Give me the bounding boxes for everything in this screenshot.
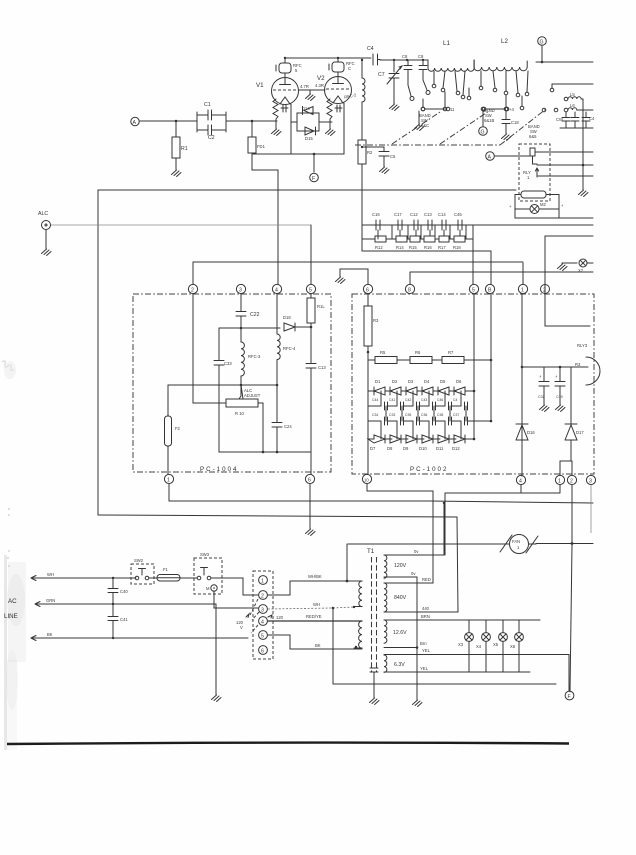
svg-text:C43: C43 bbox=[421, 398, 427, 402]
wire ALC to pin5 bbox=[51, 224, 311, 226]
svg-text:+: + bbox=[539, 374, 542, 379]
fan feed line bbox=[348, 543, 593, 546]
cap row 2 bbox=[368, 413, 491, 425]
svg-text:D1: D1 bbox=[375, 379, 381, 384]
svg-text:11: 11 bbox=[450, 107, 455, 112]
svg-text:1: 1 bbox=[527, 175, 530, 180]
svg-text:R1: R1 bbox=[181, 146, 188, 152]
svg-text:WH/BK: WH/BK bbox=[308, 574, 322, 579]
svg-text:6&1B: 6&1B bbox=[484, 118, 494, 123]
capacitor C16 bbox=[372, 212, 380, 230]
pin B bbox=[485, 284, 494, 293]
pin 4 bbox=[272, 284, 281, 293]
wire C1 to V1 grid bbox=[226, 120, 277, 122]
svg-text:3: 3 bbox=[239, 288, 242, 294]
capacitor C17 bbox=[394, 212, 402, 230]
svg-text:BRN: BRN bbox=[421, 614, 430, 619]
svg-text:R2: R2 bbox=[367, 150, 373, 155]
scan left margin band bbox=[4, 555, 7, 750]
svg-text:L5: L5 bbox=[570, 92, 575, 97]
core ground bbox=[370, 672, 380, 705]
capacitor CX bbox=[582, 112, 595, 128]
pin6 ground bbox=[306, 484, 316, 536]
cap row 1 bbox=[368, 398, 468, 410]
capacitor C8 bbox=[402, 54, 414, 101]
svg-text:1: 1 bbox=[521, 288, 524, 294]
cap feed wire bbox=[522, 366, 560, 368]
capacitor C19 bbox=[555, 367, 565, 412]
wafer jumper pair left bbox=[421, 107, 455, 112]
node ALC bbox=[38, 211, 51, 256]
PC-1004 board box bbox=[133, 294, 331, 472]
svg-text:1: 1 bbox=[167, 478, 170, 484]
cathode bypass marks V1 bbox=[281, 105, 288, 112]
multiplier right rail bbox=[473, 294, 475, 439]
svg-text:FD1: FD1 bbox=[257, 144, 266, 149]
pin 2 bbox=[188, 284, 197, 293]
diode D9 bbox=[403, 435, 424, 451]
svg-text:2: 2 bbox=[570, 479, 573, 485]
relay RLY3 coil arc bbox=[560, 343, 600, 385]
svg-text:6&C: 6&C bbox=[421, 123, 429, 128]
resistor R16 bbox=[424, 236, 435, 250]
feedback box left line bbox=[97, 190, 99, 515]
svg-text:M2: M2 bbox=[540, 202, 546, 207]
switch SW3 bbox=[180, 552, 222, 594]
junction bbox=[240, 327, 243, 330]
svg-text:D6: D6 bbox=[456, 379, 462, 384]
resistor R14 bbox=[396, 236, 407, 250]
B+ plate line bbox=[285, 57, 371, 59]
anode cap V2 bbox=[329, 58, 355, 72]
svg-text:D8: D8 bbox=[387, 446, 393, 451]
wire FD1 to PC-1004 pin 4 bbox=[252, 170, 278, 284]
svg-text:F: F bbox=[312, 176, 315, 182]
svg-text:R3: R3 bbox=[373, 318, 379, 323]
scan smudge artifacts bbox=[2, 361, 25, 710]
capacitor C12 bbox=[410, 212, 418, 230]
junction bbox=[175, 120, 178, 123]
T1 core bbox=[372, 557, 377, 672]
svg-text:8: 8 bbox=[408, 288, 411, 294]
diode D2 bbox=[390, 379, 408, 395]
diode D6 bbox=[454, 379, 474, 395]
ground L5 rail bbox=[579, 189, 589, 197]
svg-text:4.7R: 4.7R bbox=[300, 84, 309, 89]
svg-text:2: 2 bbox=[191, 288, 194, 294]
svg-text:PC-1002: PC-1002 bbox=[410, 466, 448, 473]
svg-text:BK: BK bbox=[315, 643, 321, 648]
diode D1 bbox=[368, 379, 392, 395]
svg-text:X5: X5 bbox=[493, 642, 499, 647]
diode D16 zener bbox=[516, 424, 535, 476]
wire terminal3 WH dotted bbox=[268, 602, 333, 609]
feedback box top line bbox=[98, 189, 516, 191]
T1 secondary HV bbox=[384, 577, 458, 612]
pin 2c bbox=[567, 475, 576, 484]
svg-text:+4: +4 bbox=[509, 107, 514, 112]
terminal 1 bbox=[259, 576, 268, 585]
pin6 drop bbox=[310, 452, 312, 474]
svg-text:C2: C2 bbox=[208, 135, 215, 141]
grid resistor zigzag V1 bbox=[273, 99, 278, 122]
svg-text:X6: X6 bbox=[510, 644, 516, 649]
pin 10 bbox=[362, 474, 371, 483]
svg-text:D7: D7 bbox=[370, 446, 376, 451]
bias line to pin2 bbox=[193, 262, 523, 284]
node F bottom bbox=[565, 691, 574, 700]
capacitor C13a bbox=[424, 212, 432, 230]
RLY1 contact outputs bbox=[537, 152, 593, 176]
svg-text:V: V bbox=[240, 625, 243, 630]
inductor RFC-4 bbox=[277, 294, 296, 385]
ALC adjust pot R10 bbox=[226, 385, 261, 416]
cathode bottom wire bbox=[252, 153, 344, 155]
svg-text:RLY3: RLY3 bbox=[577, 343, 588, 348]
capacitor C22 bbox=[236, 294, 260, 328]
svg-text:D5: D5 bbox=[440, 379, 446, 384]
svg-text:4: 4 bbox=[261, 620, 264, 626]
ladder bottom rail segments bbox=[386, 238, 473, 240]
wire input A to C1 bbox=[140, 120, 197, 122]
svg-text:2: 2 bbox=[261, 594, 264, 600]
wire C4 to coils bbox=[380, 59, 428, 61]
terminal 5 bbox=[259, 631, 268, 640]
svg-text:C13: C13 bbox=[424, 212, 432, 217]
diode D11 bbox=[436, 435, 456, 451]
snubber ladder rails bbox=[362, 225, 375, 239]
svg-text:C33: C33 bbox=[389, 413, 395, 417]
junction bbox=[367, 351, 370, 354]
terminal 2 bbox=[259, 591, 268, 600]
svg-text:5: 5 bbox=[261, 634, 264, 640]
svg-text:C42: C42 bbox=[405, 398, 411, 402]
svg-text:RFC-3: RFC-3 bbox=[248, 354, 261, 359]
svg-text:4: 4 bbox=[275, 288, 278, 294]
inductor L1 bbox=[428, 40, 474, 71]
HV output line bbox=[521, 294, 523, 476]
lamp X5 bbox=[493, 620, 507, 672]
svg-text:ALC: ALC bbox=[38, 211, 48, 217]
svg-text:R1L: R1L bbox=[317, 304, 325, 309]
svg-text:1: 1 bbox=[558, 479, 561, 485]
svg-text:D12: D12 bbox=[452, 446, 460, 451]
terminal 4 bbox=[259, 617, 268, 626]
svg-text:A: A bbox=[133, 120, 137, 126]
inductor RFC-2 bbox=[344, 60, 365, 140]
120 jumper label bbox=[268, 615, 284, 620]
diode D17 zener bbox=[565, 367, 584, 461]
svg-text:C5: C5 bbox=[390, 154, 396, 159]
lamp X4 bbox=[476, 620, 490, 672]
svg-text:R15: R15 bbox=[409, 245, 417, 250]
svg-text:840V: 840V bbox=[394, 595, 407, 601]
svg-text:PC-1004: PC-1004 bbox=[200, 466, 238, 473]
diode D10 bbox=[419, 435, 440, 451]
inductor RFC-3 bbox=[241, 328, 261, 385]
svg-text:C4: C4 bbox=[453, 398, 457, 402]
voltage select dashed links bbox=[250, 599, 259, 633]
svg-text:R12: R12 bbox=[375, 245, 383, 250]
svg-text:D9: D9 bbox=[403, 446, 409, 451]
tube V1 bbox=[256, 73, 325, 105]
node circle on right vertical bbox=[541, 285, 550, 294]
capacitor C9 bbox=[418, 54, 430, 95]
pin 3c bbox=[586, 475, 595, 484]
primary top feed bbox=[346, 544, 348, 581]
fan FAN1 bbox=[500, 535, 538, 554]
svg-text:2: 2 bbox=[543, 288, 546, 294]
feedback box bottom line bbox=[98, 515, 457, 517]
svg-text:C24: C24 bbox=[284, 424, 292, 429]
svg-text:WH: WH bbox=[47, 572, 54, 577]
T1 secondary 12.6V bbox=[384, 614, 540, 649]
svg-text:D15: D15 bbox=[305, 136, 313, 141]
terminal strip box bbox=[253, 571, 273, 659]
fuse F2 bbox=[165, 385, 181, 474]
L1 tap contacts bbox=[432, 84, 436, 88]
fuse F1 bbox=[149, 567, 180, 581]
resistor R17 bbox=[438, 236, 449, 250]
pin2 wire to pot bbox=[193, 294, 226, 403]
pin3c stub bbox=[590, 485, 592, 533]
svg-text:5: 5 bbox=[309, 288, 312, 294]
resistor R1L bbox=[307, 294, 325, 363]
svg-text:C17: C17 bbox=[394, 212, 402, 217]
svg-text:M: M bbox=[206, 586, 210, 591]
svg-text:1: 1 bbox=[517, 545, 520, 550]
wire terminal4 RED/YE bbox=[268, 614, 362, 621]
resistor R1 bbox=[172, 121, 188, 169]
resistor R12 bbox=[375, 236, 386, 250]
B+ wire to right edge bbox=[536, 61, 593, 63]
svg-text:120V: 120V bbox=[394, 563, 407, 569]
svg-text:RED/YE: RED/YE bbox=[306, 614, 322, 619]
svg-text:LINE: LINE bbox=[4, 613, 18, 620]
pin 8 bbox=[405, 284, 414, 293]
svg-text:C36: C36 bbox=[421, 413, 427, 417]
lamp X3 bbox=[458, 620, 473, 672]
resistor R18 bbox=[453, 236, 465, 250]
svg-text:0v: 0v bbox=[411, 571, 416, 576]
svg-text:6: 6 bbox=[261, 649, 264, 655]
capacitor C14 bbox=[438, 212, 446, 230]
svg-text:R3: R3 bbox=[575, 362, 581, 367]
svg-text:4: 4 bbox=[519, 479, 522, 485]
B+ feed line right bbox=[410, 272, 593, 284]
svg-text:ADJUST: ADJUST bbox=[244, 393, 261, 398]
node A (input) bbox=[131, 117, 139, 126]
junction bbox=[251, 120, 254, 123]
svg-text:L2: L2 bbox=[501, 38, 508, 45]
pin 1 bbox=[164, 474, 173, 483]
svg-text:GRN: GRN bbox=[46, 598, 55, 603]
svg-text:X3: X3 bbox=[458, 642, 464, 647]
resistor R6 bbox=[397, 350, 432, 364]
svg-text:3: 3 bbox=[261, 608, 264, 614]
multiplier left rail bbox=[367, 352, 369, 474]
pin 6 bbox=[305, 474, 314, 483]
resistor R5 bbox=[368, 350, 397, 364]
grid resistor zigzag V2 bbox=[327, 99, 332, 122]
svg-text:D10: D10 bbox=[419, 446, 427, 451]
node A (relay drive) bbox=[486, 152, 495, 161]
capacitor CV bbox=[571, 112, 579, 128]
svg-text:C19: C19 bbox=[556, 395, 563, 399]
svg-text:V2: V2 bbox=[317, 75, 325, 82]
svg-text:BK: BK bbox=[47, 632, 53, 637]
capacitor C18 bbox=[502, 111, 520, 141]
svg-text:A: A bbox=[488, 155, 492, 161]
pin7 drop joins R7 bbox=[490, 359, 493, 362]
svg-text:440: 440 bbox=[422, 606, 430, 611]
svg-text:C18: C18 bbox=[511, 120, 519, 125]
pot output drop bbox=[258, 403, 263, 452]
svg-text:C: C bbox=[348, 66, 351, 71]
resistor R2 bbox=[358, 140, 373, 251]
contact at right bbox=[550, 84, 593, 92]
svg-text:+: + bbox=[561, 203, 564, 208]
svg-text:D11: D11 bbox=[436, 446, 444, 451]
drop to F node bbox=[568, 655, 570, 692]
svg-text:120: 120 bbox=[276, 615, 284, 620]
switch SW2 bbox=[131, 558, 154, 584]
svg-text:C4: C4 bbox=[589, 116, 595, 121]
GRN chassis ground bbox=[212, 604, 222, 702]
drop to PC-1002 pin1 bbox=[522, 263, 524, 284]
resistor R7 bbox=[432, 350, 491, 364]
diode D7 bbox=[368, 435, 392, 451]
pin 3 bbox=[236, 284, 245, 293]
svg-text:6: 6 bbox=[308, 478, 311, 484]
svg-text:L6: L6 bbox=[570, 103, 575, 108]
GRN input wire bbox=[35, 598, 216, 607]
svg-text:RED: RED bbox=[422, 577, 431, 582]
tube V2 bbox=[317, 72, 352, 104]
svg-text:RFC-4: RFC-4 bbox=[283, 346, 296, 351]
pin4b/1c link line bbox=[445, 485, 560, 493]
heavy scan line bottom bbox=[7, 743, 569, 744]
lamp M2 loop bbox=[509, 195, 593, 219]
capacitor C4 bbox=[367, 46, 380, 65]
drop to 0V tap bbox=[444, 493, 446, 555]
120V label bbox=[236, 614, 249, 630]
svg-text:Brn: Brn bbox=[420, 641, 427, 646]
BK input wire bbox=[31, 632, 248, 641]
inductor L2 bbox=[474, 38, 527, 71]
svg-text:4.3R: 4.3R bbox=[315, 83, 324, 88]
pin1 PC-1004 output line bbox=[169, 484, 593, 503]
wire terminal5 BK bbox=[268, 635, 362, 649]
capacitor C45 bbox=[454, 212, 462, 230]
svg-text:6.3V: 6.3V bbox=[394, 662, 405, 668]
T1 secondary 6.3V bbox=[384, 648, 569, 672]
svg-text:R 10: R 10 bbox=[235, 411, 245, 416]
svg-text:C45: C45 bbox=[454, 212, 462, 217]
resistor R3 bbox=[364, 294, 379, 352]
capacitor C41 bbox=[108, 604, 128, 639]
svg-text:C37: C37 bbox=[453, 413, 459, 417]
diode D5 bbox=[438, 379, 456, 395]
T1 primary lower bbox=[354, 621, 362, 648]
board bottom rail bbox=[219, 451, 311, 453]
diode pair D14 D15 bbox=[291, 106, 332, 141]
capacitor C13 bbox=[306, 364, 326, 453]
svg-text:C12: C12 bbox=[410, 212, 418, 217]
T1 secondary 120V bbox=[384, 549, 444, 578]
svg-text:C41: C41 bbox=[389, 398, 395, 402]
capacitor C24 bbox=[272, 385, 292, 452]
wire terminal2 WH/BK bbox=[268, 574, 347, 595]
junction bbox=[313, 153, 316, 156]
svg-text:F: F bbox=[568, 694, 571, 700]
svg-text:C34: C34 bbox=[372, 413, 378, 417]
svg-text:R6: R6 bbox=[415, 350, 421, 355]
svg-text:C46: C46 bbox=[437, 398, 443, 402]
node G mid bbox=[479, 107, 488, 135]
multiplier column links bbox=[381, 391, 466, 439]
terminal 3 bbox=[259, 605, 268, 614]
L2 tap contacts bbox=[479, 86, 483, 90]
band switch wafer dash-dot diagonals bbox=[355, 144, 500, 146]
diode D3 bbox=[406, 379, 424, 395]
ground under R1 bbox=[172, 169, 182, 177]
WH input wire bbox=[31, 572, 136, 581]
pin10 output to RED tap bbox=[367, 484, 433, 583]
capacitor C32 bbox=[538, 367, 549, 412]
junction bbox=[559, 366, 562, 369]
pin 4b bbox=[516, 475, 525, 484]
svg-text:YEL: YEL bbox=[420, 666, 429, 671]
svg-text:C38: C38 bbox=[437, 413, 443, 417]
svg-text:6: 6 bbox=[366, 288, 369, 294]
svg-text:10: 10 bbox=[364, 478, 369, 483]
svg-text:12.6V: 12.6V bbox=[393, 630, 407, 636]
svg-text:C40: C40 bbox=[120, 589, 128, 594]
T1 primary upper bbox=[346, 580, 362, 607]
diode D8 bbox=[387, 435, 408, 451]
svg-text:R18: R18 bbox=[453, 245, 461, 250]
R2 line to pin7 bbox=[362, 239, 491, 284]
wire M to terminal 3 bbox=[214, 591, 258, 608]
ground V2 cathode bbox=[326, 122, 336, 136]
L1 coil taps bbox=[434, 71, 465, 95]
WH junction drop bbox=[332, 607, 335, 610]
band sw labels bbox=[419, 113, 431, 128]
right block bottom rail bbox=[545, 325, 590, 327]
pin 5 bbox=[306, 284, 315, 293]
svg-text:5: 5 bbox=[472, 288, 475, 294]
node G top bbox=[538, 37, 547, 64]
relay RLY1 dashed box bbox=[519, 144, 550, 201]
node F bbox=[310, 154, 319, 182]
svg-text:D18: D18 bbox=[283, 315, 291, 320]
inductor L6 bbox=[564, 103, 593, 112]
svg-text:SW2: SW2 bbox=[134, 558, 144, 563]
svg-text:WH: WH bbox=[313, 602, 320, 607]
variable capacitor C7 bbox=[378, 60, 402, 111]
secondary CT ground line bbox=[413, 577, 423, 707]
lower band contacts row bbox=[421, 107, 425, 111]
wire SW3 to terminal 2 bbox=[211, 578, 258, 595]
svg-text:R5: R5 bbox=[380, 350, 386, 355]
pot feed line bbox=[168, 384, 277, 386]
svg-text:3: 3 bbox=[589, 479, 592, 485]
capacitor C1 C2 parallel pair bbox=[197, 102, 226, 141]
svg-text:D4: D4 bbox=[424, 379, 430, 384]
ladder column drops bbox=[378, 225, 466, 239]
svg-text:C4: C4 bbox=[367, 46, 374, 52]
